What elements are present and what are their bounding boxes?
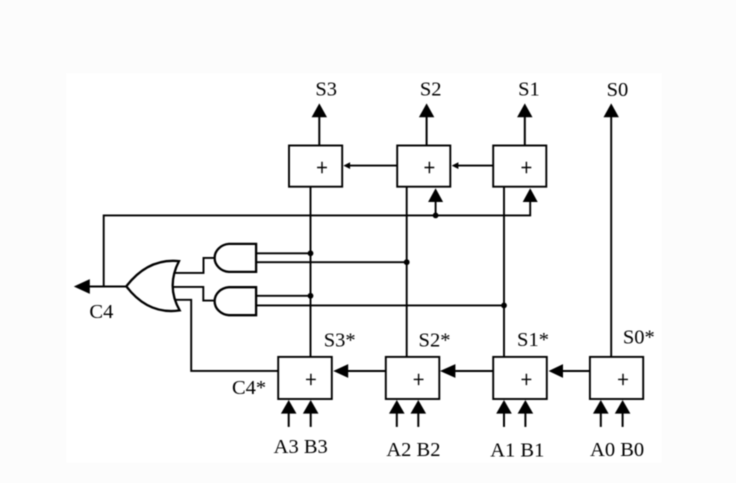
adder box S3 (top row) bbox=[289, 146, 342, 187]
wire: AND1 input B from S2 net bbox=[256, 261, 407, 263]
wire: input arrow A0 bbox=[593, 400, 609, 427]
adder box S1 (top row) bbox=[493, 146, 546, 187]
wire: output arrow S1 bbox=[517, 103, 532, 145]
adder box S2 (top row) bbox=[397, 146, 450, 187]
wire: carry arrow from S2* box into S3* box bbox=[333, 364, 386, 378]
wire: input arrow A2 bbox=[389, 400, 405, 427]
svg-text:S1*: S1* bbox=[517, 329, 549, 351]
svg-text:S0: S0 bbox=[607, 79, 629, 101]
svg-text:A3 B3: A3 B3 bbox=[274, 436, 328, 458]
svg-text:S0*: S0* bbox=[623, 326, 655, 348]
wire: AND1 input A from S3 net bbox=[256, 252, 311, 254]
wire: output arrow S3 bbox=[312, 103, 327, 145]
OR gate U1 bbox=[126, 261, 179, 311]
svg-text:A0 B0: A0 B0 bbox=[590, 439, 644, 461]
svg-text:C4: C4 bbox=[89, 301, 113, 323]
arrowhead C4 output bbox=[74, 279, 90, 294]
wire: S1 sum net (top box S1 down to box S1*) bbox=[503, 186, 505, 357]
AND gate U2 (upper) bbox=[215, 244, 256, 272]
wire: output arrow S2 bbox=[419, 103, 434, 145]
wire: carry arrow from S0* box into S1* box bbox=[549, 364, 590, 378]
junction AND2 input A on S3 net bbox=[308, 293, 314, 299]
svg-text:S2: S2 bbox=[420, 79, 442, 101]
wire: C4 output from OR gate bbox=[89, 286, 128, 288]
wire: carry arrow from S1 box into S2 box bbox=[452, 162, 494, 169]
white figure background bbox=[66, 73, 662, 463]
wire: input arrow B3 bbox=[303, 400, 319, 427]
junction AND1 input B on S2 net bbox=[404, 259, 410, 265]
wire: carry feedback bus from C4 node to top adders bbox=[104, 202, 531, 287]
wire: AND2 output to OR input bbox=[173, 287, 214, 301]
wire: carry arrow from S1* box into S2* box bbox=[440, 364, 493, 378]
adder box S0* (bottom row) bbox=[590, 357, 643, 399]
adder box S2* (bottom row) bbox=[386, 357, 440, 399]
AND gate U3 (lower) bbox=[215, 287, 256, 315]
wire: input arrow A3 bbox=[281, 400, 297, 427]
wire: branch up into top box S2 bottom bbox=[435, 202, 437, 215]
svg-text:S3*: S3* bbox=[324, 329, 356, 351]
svg-text:A2 B2: A2 B2 bbox=[386, 439, 440, 461]
wire: AND2 input A from S3 net bbox=[256, 295, 311, 297]
svg-text:S1: S1 bbox=[518, 79, 540, 101]
junction AND1 input A on S3 net bbox=[308, 250, 314, 256]
wire: AND1 output to OR input bbox=[174, 258, 214, 273]
svg-text:C4*: C4* bbox=[232, 377, 266, 399]
junction on carry feedback bus bbox=[433, 213, 439, 219]
wire: input arrow A1 bbox=[496, 400, 512, 427]
wire: S0 net with output arrow S0 bbox=[604, 103, 619, 357]
adder box S3* (bottom row) bbox=[278, 357, 332, 399]
svg-text:S3: S3 bbox=[315, 79, 337, 101]
arrowhead into top box S1 bottom bbox=[523, 188, 538, 202]
wire: carry arrow from S2 box into S3 box bbox=[343, 162, 397, 169]
svg-text:A1 B1: A1 B1 bbox=[490, 440, 544, 462]
wire: S2 sum net (top box S2 down to box S2*) bbox=[406, 187, 408, 357]
wire: input arrow B2 bbox=[411, 400, 427, 427]
wire: S3 sum net (top box S3 down to box S3*) bbox=[310, 187, 312, 357]
adder box S1* (bottom row) bbox=[493, 357, 547, 399]
arrowhead into top box S2 bottom bbox=[428, 188, 443, 202]
wire: C4* carry from box S3* to OR input bbox=[175, 300, 278, 371]
wire: AND2 input B from S1 net bbox=[256, 304, 504, 306]
wire: input arrow B1 bbox=[518, 400, 534, 427]
svg-text:S2*: S2* bbox=[419, 329, 451, 351]
wire: input arrow B0 bbox=[615, 400, 631, 427]
junction AND2 input B on S1 net bbox=[501, 303, 507, 309]
